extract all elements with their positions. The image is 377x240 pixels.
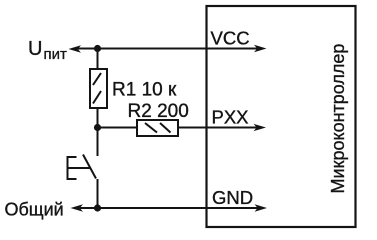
- svg-text:PXX: PXX: [212, 107, 249, 128]
- svg-text:R2 200: R2 200: [128, 101, 189, 122]
- svg-text:Общий: Общий: [5, 200, 64, 220]
- svg-text:U: U: [28, 38, 42, 60]
- svg-text:GND: GND: [212, 187, 253, 208]
- svg-text:R1 10 к: R1 10 к: [112, 80, 177, 101]
- svg-text:пит: пит: [44, 46, 68, 63]
- svg-text:Микроконтроллер: Микроконтроллер: [328, 44, 348, 194]
- svg-text:VCC: VCC: [211, 28, 250, 49]
